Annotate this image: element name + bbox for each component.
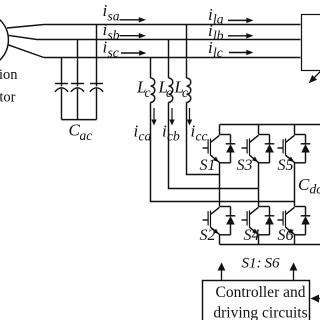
arrow i_cb bbox=[171, 108, 173, 121]
svg-text:S6: S6 bbox=[278, 227, 294, 244]
gate drive arrow right bbox=[293, 269, 295, 280]
arrow i_sb bbox=[120, 35, 141, 37]
wire stub from top rail to S1 bbox=[219, 125, 221, 135]
diode D3 cathode bar bbox=[265, 143, 275, 145]
diode D1 bottom wire bbox=[230, 152, 232, 163]
igbt S4 gate bar bbox=[246, 211, 248, 225]
svg-text:S4: S4 bbox=[244, 227, 260, 244]
svg-text:sb: sb bbox=[108, 28, 120, 43]
diode D5 cathode bar bbox=[301, 143, 311, 145]
igbt S5 cell bottom wire bbox=[295, 162, 306, 164]
diode D4 cathode bar bbox=[265, 215, 275, 217]
svg-text:C: C bbox=[298, 175, 310, 194]
igbt S2 body bar bbox=[210, 210, 212, 227]
diode D5 triangle bbox=[301, 144, 310, 153]
diode D3 bottom wire bbox=[269, 152, 271, 163]
arrow i_cc bbox=[189, 108, 191, 121]
wire leg a midpoint bbox=[219, 163, 221, 207]
igbt S6 emitter wire bbox=[294, 234, 296, 235]
wire from bus to inductor L_cb bbox=[168, 40, 170, 79]
svg-text:ac: ac bbox=[80, 128, 93, 143]
igbt S5 gate lead bbox=[278, 147, 284, 149]
feedback arrow into controller bbox=[318, 298, 320, 300]
wire bus phase b bbox=[37, 39, 301, 41]
inductor L_cc coil bbox=[151, 78, 155, 102]
diode D6 triangle bbox=[301, 216, 310, 225]
igbt S3 collector lead bbox=[250, 135, 259, 142]
igbt S5 emitter wire bbox=[294, 162, 296, 163]
igbt S6 gate lead bbox=[278, 219, 284, 221]
igbt S6 emitter lead with arrow bbox=[286, 227, 294, 234]
diode D4 triangle bbox=[265, 216, 274, 225]
igbt S1 emitter lead with arrow bbox=[211, 155, 219, 162]
diode D6 top wire bbox=[305, 207, 307, 216]
wire from generator to bus c bbox=[7, 45, 43, 58]
wire leg c midpoint bbox=[294, 163, 296, 207]
capacitor C_acb curved plate bbox=[71, 88, 84, 92]
wire from capacitor C_aca to common bar bbox=[61, 89, 63, 120]
diode D4 bottom wire bbox=[269, 224, 271, 235]
svg-text:dc: dc bbox=[310, 182, 320, 197]
capacitor C_aca curved plate bbox=[55, 88, 68, 92]
wire DC top rail bbox=[220, 124, 320, 126]
arrow i_ca bbox=[153, 108, 155, 121]
induction generator G1 (circle, cut off at left edge) bbox=[0, 12, 8, 68]
wire from inductor L_cb down to bridge bbox=[169, 102, 259, 188]
svg-text:S1: S6: S1: S6 bbox=[242, 256, 280, 272]
wire from capacitor C_acb to common bar bbox=[77, 89, 79, 120]
igbt S5 collector lead bbox=[286, 135, 295, 142]
svg-text:c: c bbox=[145, 85, 151, 100]
capacitor C_aca top plate bbox=[55, 83, 68, 85]
diode D4 top wire bbox=[269, 207, 271, 216]
controller box bbox=[203, 281, 310, 320]
diode D1 top wire bbox=[230, 135, 232, 144]
diode D3 top wire bbox=[269, 135, 271, 144]
wire from generator to bus b bbox=[8, 35, 37, 39]
igbt S6 gate bar bbox=[282, 211, 284, 225]
diode D2 top wire bbox=[230, 207, 232, 216]
diode D6 bottom wire bbox=[305, 224, 307, 235]
igbt S4 gate lead bbox=[242, 219, 248, 221]
diode D2 triangle bbox=[226, 216, 235, 225]
igbt S1 body bar bbox=[210, 138, 212, 155]
wire from capacitor C_acc to common bar bbox=[96, 89, 98, 120]
igbt S2 emitter lead with arrow bbox=[211, 227, 219, 234]
igbt S1 gate bar bbox=[207, 139, 209, 153]
svg-text:Controller and: Controller and bbox=[216, 284, 306, 301]
wire from S6 to bottom rail bbox=[294, 235, 296, 245]
variable-load diagonal arrow bbox=[313, 70, 320, 79]
svg-text:lc: lc bbox=[213, 45, 223, 60]
igbt S6 collector lead bbox=[286, 207, 295, 214]
wire from inductor L_cc down to bridge bbox=[151, 102, 295, 201]
igbt S6 body bar bbox=[285, 210, 287, 227]
svg-text:Induction: Induction bbox=[0, 67, 18, 83]
arrow i_lc bbox=[229, 52, 248, 54]
svg-text:c: c bbox=[182, 85, 188, 100]
igbt S1 emitter wire bbox=[219, 162, 221, 163]
diode D6 cathode bar bbox=[301, 215, 311, 217]
arrow i_sc bbox=[121, 52, 141, 54]
igbt S1 collector lead bbox=[211, 135, 220, 142]
wire from generator to bus a bbox=[7, 25, 44, 29]
igbt S4 body bar bbox=[249, 210, 251, 227]
igbt S3 cell top wire bbox=[259, 134, 270, 136]
igbt S1 cell top wire bbox=[220, 134, 231, 136]
capacitor C_acb top plate bbox=[71, 83, 84, 85]
wire from bus to capacitor C_acb bbox=[77, 40, 79, 87]
wire from bus to capacitor C_acc bbox=[96, 25, 98, 87]
igbt S3 cell bottom wire bbox=[259, 162, 270, 164]
inductor L_cb coil bbox=[169, 78, 173, 102]
gate drive arrow left bbox=[221, 269, 223, 280]
igbt S6 cell top wire bbox=[295, 206, 306, 208]
wire from S4 to bottom rail bbox=[258, 235, 260, 245]
load box (cut off at right edge) bbox=[302, 15, 320, 71]
wire bus phase a bbox=[44, 24, 301, 26]
svg-text:driving circuits: driving circuits bbox=[213, 304, 307, 320]
diode D5 top wire bbox=[305, 135, 307, 144]
igbt S5 gate bar bbox=[282, 139, 284, 153]
capacitor bank common bar bbox=[62, 119, 97, 121]
arrow i_sa bbox=[120, 19, 141, 21]
capacitor C_acc top plate bbox=[90, 83, 103, 85]
capacitor C_acc curved plate bbox=[90, 88, 103, 92]
diode D2 bottom wire bbox=[230, 224, 232, 235]
svg-text:ca: ca bbox=[139, 129, 152, 144]
svg-text:S2: S2 bbox=[200, 227, 216, 244]
wire DC bottom rail bbox=[220, 244, 320, 246]
igbt S4 collector lead bbox=[250, 207, 259, 214]
igbt S3 body bar bbox=[249, 138, 251, 155]
wire from S2 to bottom rail bbox=[219, 235, 221, 245]
svg-text:sa: sa bbox=[108, 9, 120, 24]
igbt S4 cell top wire bbox=[259, 206, 270, 208]
diode D5 bottom wire bbox=[305, 152, 307, 163]
igbt S2 cell bottom wire bbox=[220, 234, 231, 236]
igbt S4 emitter wire bbox=[258, 234, 260, 235]
igbt S2 cell top wire bbox=[220, 206, 231, 208]
svg-text:lb: lb bbox=[213, 28, 224, 43]
diode D1 cathode bar bbox=[226, 143, 236, 145]
arrow i_la bbox=[228, 19, 248, 21]
igbt S1 gate lead bbox=[203, 147, 209, 149]
igbt S1 cell bottom wire bbox=[220, 162, 231, 164]
svg-text:cc: cc bbox=[196, 129, 208, 144]
wire from bus to capacitor C_aca bbox=[61, 58, 63, 87]
diode D2 cathode bar bbox=[226, 215, 236, 217]
wire stub from top rail to S3 bbox=[258, 125, 260, 135]
arrow i_lb bbox=[228, 35, 248, 37]
wire from bus to inductor L_ca bbox=[186, 25, 188, 79]
svg-text:la: la bbox=[213, 12, 224, 27]
igbt S4 cell bottom wire bbox=[259, 234, 270, 236]
igbt S3 gate bar bbox=[246, 139, 248, 153]
diode D3 triangle bbox=[265, 144, 274, 153]
diode D1 triangle bbox=[226, 144, 235, 153]
svg-text:c: c bbox=[166, 85, 172, 100]
svg-text:cb: cb bbox=[167, 129, 180, 144]
igbt S5 body bar bbox=[285, 138, 287, 155]
svg-text:sc: sc bbox=[108, 45, 119, 60]
svg-text:generator: generator bbox=[0, 89, 16, 105]
igbt S2 collector lead bbox=[211, 207, 220, 214]
igbt S2 emitter wire bbox=[219, 234, 221, 235]
svg-text:S3: S3 bbox=[237, 157, 253, 174]
wire stub from top rail to S5 bbox=[294, 125, 296, 135]
igbt S4 emitter lead with arrow bbox=[250, 227, 258, 234]
svg-text:S1: S1 bbox=[200, 157, 216, 174]
igbt S6 cell bottom wire bbox=[295, 234, 306, 236]
igbt S3 gate lead bbox=[242, 147, 248, 149]
igbt S2 gate bar bbox=[207, 211, 209, 225]
wire bus phase c bbox=[44, 57, 301, 59]
wire from inductor L_ca down to bridge bbox=[187, 102, 220, 174]
inductor L_ca coil bbox=[187, 78, 191, 102]
igbt S2 gate lead bbox=[203, 219, 209, 221]
igbt S5 cell top wire bbox=[295, 134, 306, 136]
svg-text:S5: S5 bbox=[278, 157, 294, 174]
igbt S5 emitter lead with arrow bbox=[286, 155, 294, 162]
igbt S3 emitter lead with arrow bbox=[250, 155, 258, 162]
wire from bus to inductor L_cc bbox=[150, 58, 152, 79]
wire leg b midpoint bbox=[258, 163, 260, 207]
igbt S3 emitter wire bbox=[258, 162, 260, 163]
